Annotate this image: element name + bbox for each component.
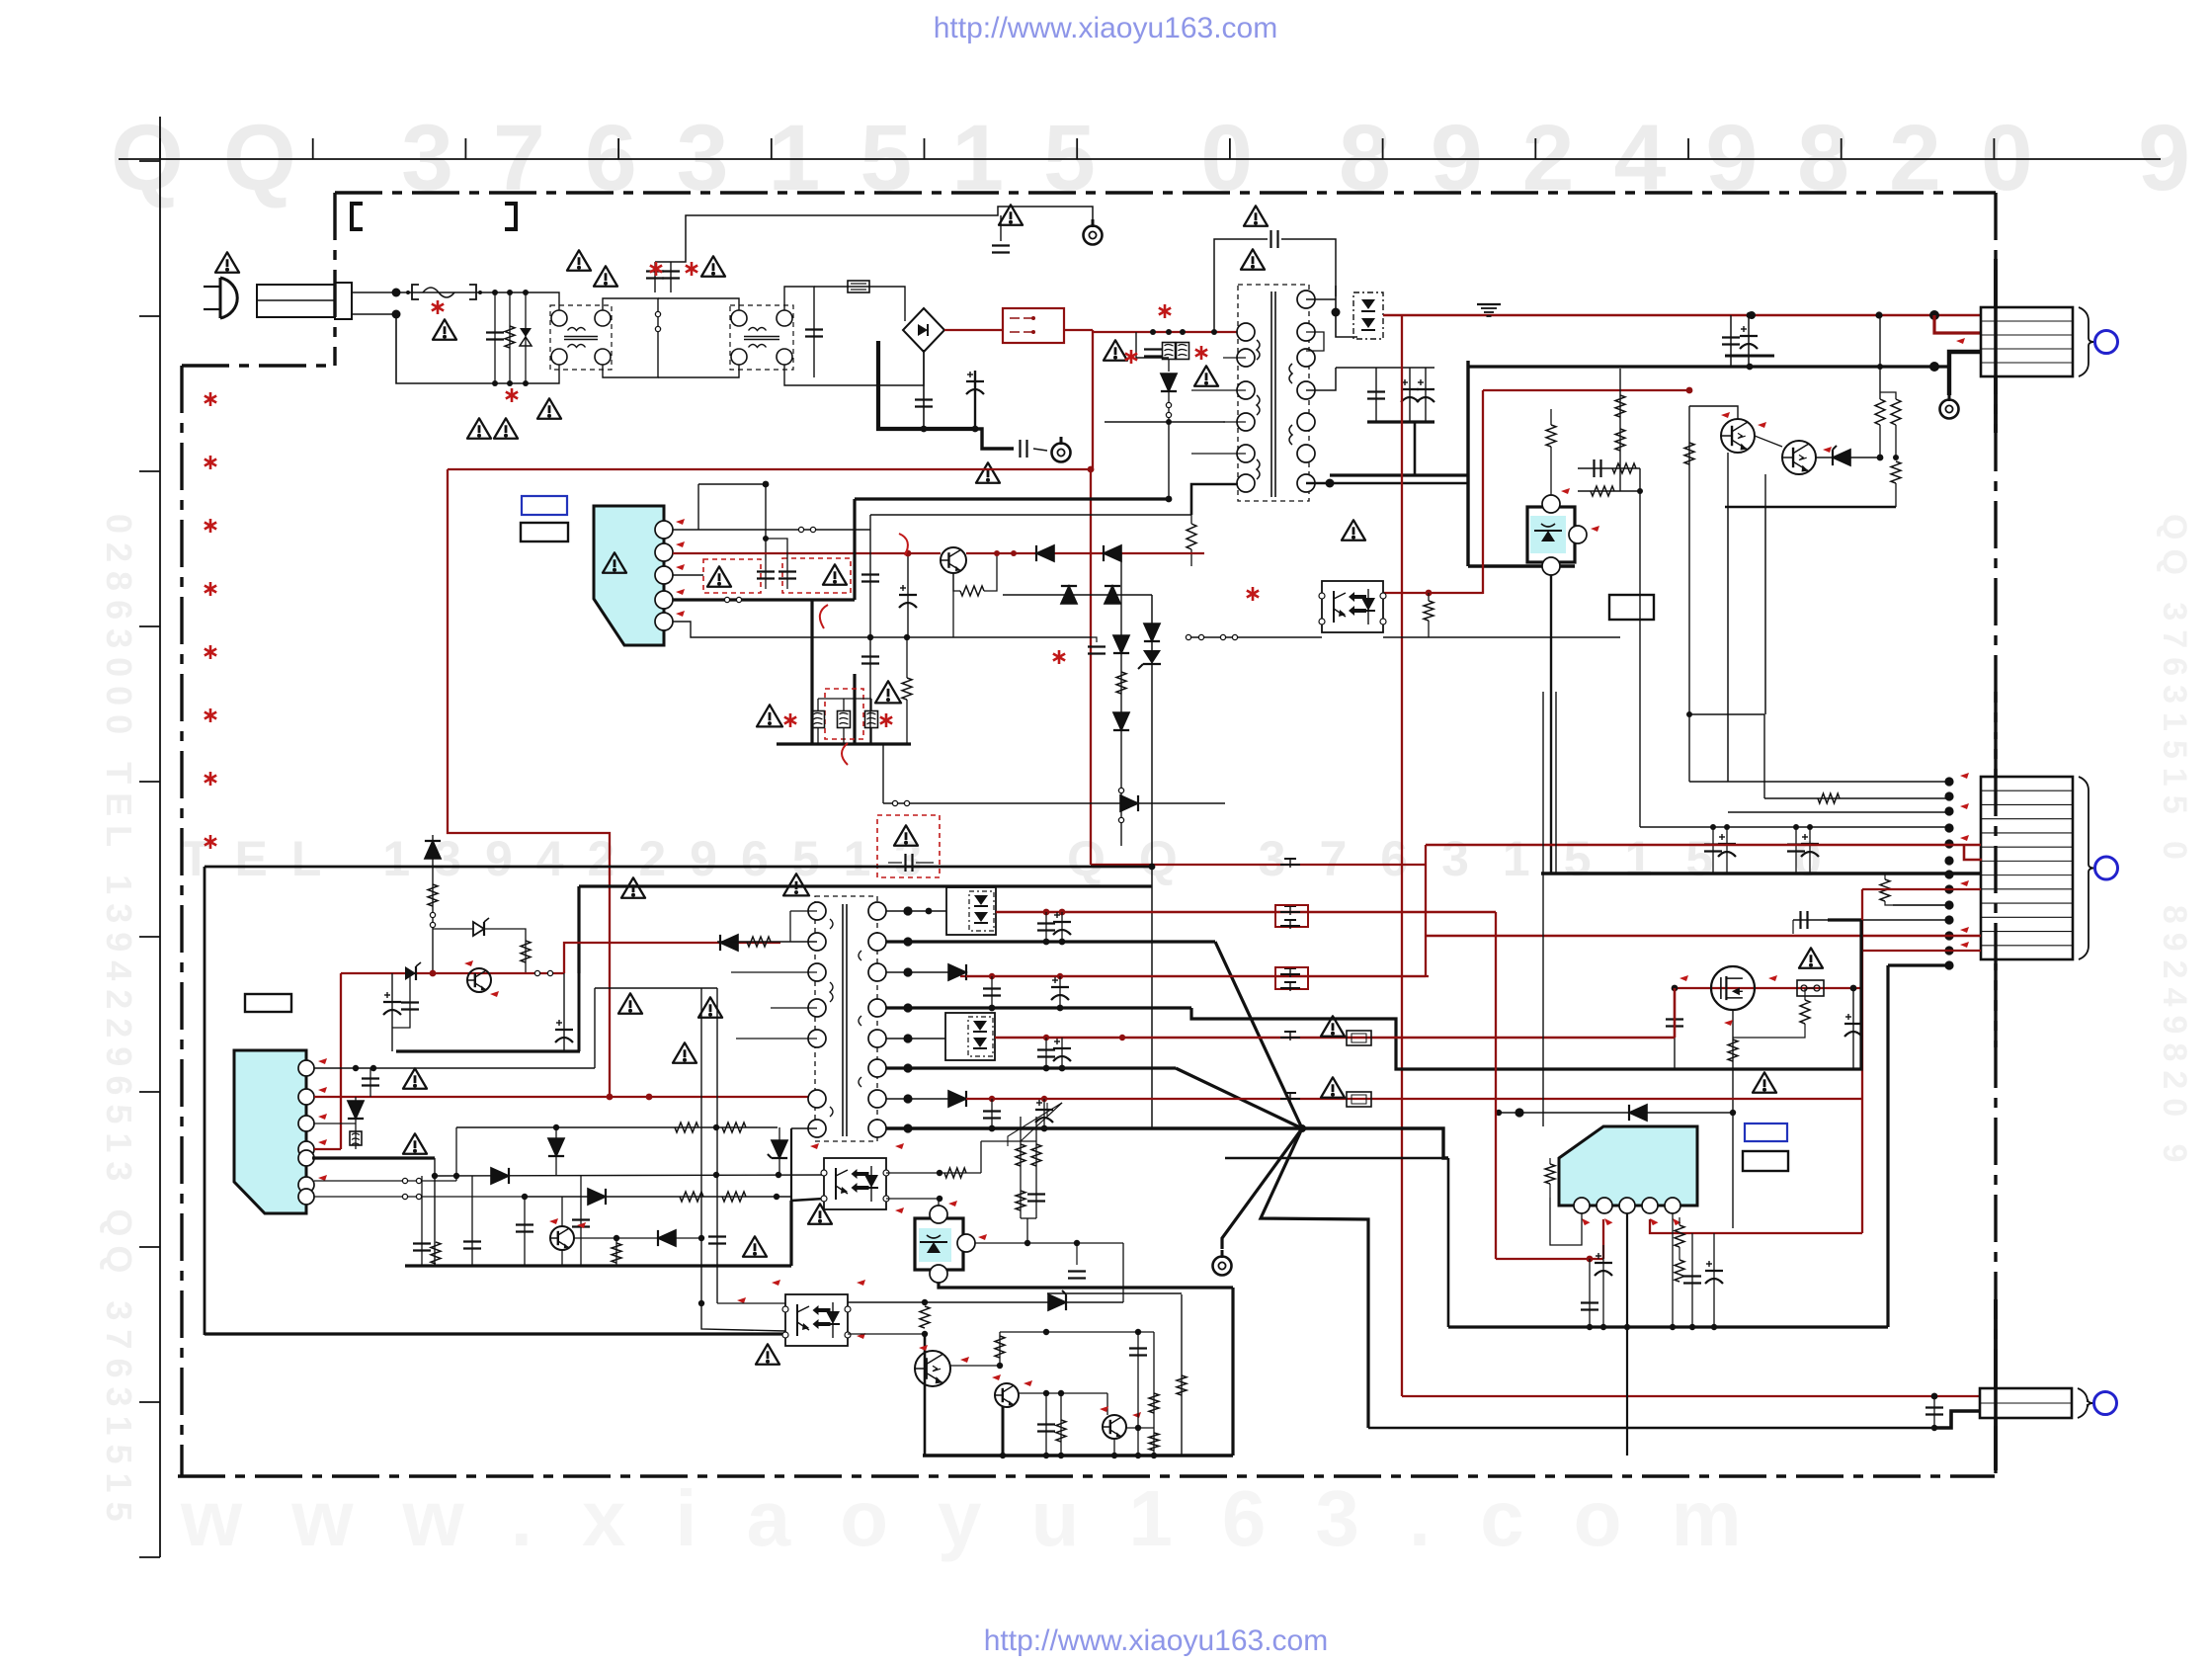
junction J71 (1043, 939, 1050, 946)
junction J81 (1119, 1035, 1125, 1040)
capacitor C11 (electrolytic) (1740, 335, 1758, 337)
warning-symbol WT14 (1194, 366, 1218, 385)
junction J33 (1793, 824, 1799, 830)
C41 legs (1043, 1099, 1045, 1128)
wire D3 down (1168, 391, 1170, 422)
wire 1059 v (1045, 1393, 1047, 1456)
U1 pin4 heavy (673, 598, 855, 601)
svg-text:http://www.xiaoyu163.com: http://www.xiaoyu163.com (984, 1624, 1329, 1657)
ruler left line (159, 117, 161, 1557)
junction J25 (1426, 590, 1433, 597)
wire RW4 (red) (448, 469, 610, 1097)
junction J103 (1043, 1390, 1049, 1396)
ref-label IC501 (245, 994, 291, 1012)
T2 winding marks (830, 919, 861, 1117)
wire 1033 v (1020, 1117, 1022, 1218)
svg-text:http://www.xiaoyu163.com: http://www.xiaoyu163.com (934, 12, 1278, 44)
wire 602 up (594, 988, 596, 1068)
adjust-mark RM19 (676, 589, 685, 595)
wire bridge bottom (923, 352, 925, 429)
wire opto PC1 low (1188, 636, 1322, 638)
wire RW40 (red) (1650, 1219, 1862, 1233)
C19 legs (765, 560, 767, 589)
junction J58 (453, 1173, 459, 1179)
wire 1281 heavy bus (405, 1264, 791, 1267)
T1 primary pin y=459 (1237, 445, 1255, 462)
junction J100 (997, 1363, 1003, 1369)
note-asterisk A8 (1252, 587, 1255, 601)
wire W18 (916, 862, 934, 864)
diode D5 (1629, 1105, 1647, 1121)
wire W12 (843, 727, 845, 744)
junction J37 (1850, 985, 1857, 992)
T2 secondary pin y=1142 (868, 1120, 886, 1137)
junction J104 (1058, 1390, 1064, 1396)
resistor R26 (612, 1243, 621, 1263)
warning-symbol WT20 (757, 705, 782, 726)
junction J7 (523, 290, 529, 295)
resistor R9 (1875, 399, 1885, 425)
wire RC 497 (1578, 490, 1620, 492)
junction J68 (1043, 909, 1050, 916)
capacitor C47 (1129, 1347, 1147, 1349)
rail2 diagonal to star (1215, 942, 1302, 1128)
connector-link L15 (892, 800, 897, 805)
junction J117 (1711, 1324, 1717, 1330)
diode D28 (948, 1091, 966, 1107)
wire 1309 row (1047, 1292, 1182, 1294)
C27 leg (391, 973, 393, 1051)
junction J94 (937, 1196, 942, 1202)
wire W6 (1884, 874, 1886, 879)
capacitor C32 (516, 1223, 533, 1225)
zener D23 (772, 1140, 787, 1158)
junction J83 (1043, 1065, 1050, 1072)
T2 p4 stub (771, 1007, 817, 1009)
fuse F1 (412, 285, 419, 299)
resistor R1 (1615, 395, 1625, 417)
junction J24 (1686, 387, 1693, 394)
note-asterisk A5 (1130, 350, 1133, 364)
wire 894 (882, 744, 884, 803)
diode D18 (720, 935, 738, 951)
note-asterisk A1 (437, 300, 440, 314)
transistor Q8 (995, 1383, 1019, 1407)
C36 legs (991, 976, 993, 1008)
ferrite bead FB5 (1280, 1098, 1300, 1100)
adjust-mark RM24 (318, 1087, 327, 1093)
adjust-mark RM7 (1960, 773, 1969, 779)
capacitor C16 (1799, 911, 1801, 929)
wire 1196 v (1181, 1294, 1183, 1456)
adjust-mark RM15 (1724, 1020, 1733, 1026)
warning-symbol WT29 (808, 1204, 832, 1223)
frame border bottom (178, 1474, 1995, 1477)
note-asterisk left column 4 (209, 582, 212, 596)
adjust-mark RM12 (1960, 942, 1969, 948)
U3 pin y=1137 (298, 1116, 314, 1131)
capacitor C18 (electrolytic) (1844, 1023, 1862, 1025)
wire 897 heavy (579, 884, 1152, 887)
wire RW12 (red) (1383, 592, 1483, 594)
resistor R10 (1891, 399, 1901, 425)
wire 1786 drop (1763, 714, 1765, 798)
warning-symbol WT5 (594, 266, 617, 286)
resistor R20 (521, 941, 531, 962)
wire row 1141 (456, 1126, 778, 1128)
frame border overlay CN1 (1994, 259, 1998, 433)
adjust-mark RM1 (1956, 338, 1965, 344)
adjust-mark RM26 (318, 1139, 327, 1145)
wire RW15 (red) (1425, 845, 1427, 976)
AC cord body (257, 285, 335, 317)
note-asterisk left column 1 (209, 392, 212, 406)
warning-symbol WT22 (894, 825, 918, 845)
wire RW1 (red) (944, 329, 1003, 331)
C5b leg (1000, 215, 1002, 241)
junction J55 (553, 1124, 559, 1130)
rail3 wire (886, 971, 949, 973)
connector-link L16 (904, 800, 909, 805)
capacitor C 837-1734 (1704, 843, 1722, 845)
wire RW9 (red) (1402, 1395, 1980, 1397)
wire 707 (697, 484, 699, 530)
wire 1155 row (981, 1140, 1036, 1142)
junction J96 (1074, 1240, 1080, 1246)
frame border overlay CN3 (1994, 1299, 1998, 1470)
wire 478 v (471, 1176, 473, 1266)
inductor FL1 (1163, 343, 1176, 360)
svg-text:02863000 TEL 13942296513 QQ 37: 02863000 TEL 13942296513 QQ 37631515 (99, 514, 139, 1531)
adjust-mark RM29 (577, 1222, 586, 1228)
junction J66 (926, 908, 933, 915)
capacitor C26 (electrolytic) (555, 1029, 573, 1031)
wire sec vertical (1336, 286, 1357, 337)
net link (766, 539, 787, 558)
U4 pin top (930, 1206, 947, 1223)
wire 1152 v (1137, 1332, 1139, 1456)
capacitor C27 (electrolytic) (383, 1001, 401, 1003)
warning-symbol WT23 (621, 877, 645, 897)
C37 legs (1059, 976, 1061, 1008)
capacitor C21 (861, 573, 879, 575)
wire W3 (1879, 425, 1881, 458)
junction J116 (1689, 1324, 1695, 1330)
Q6 emitter (561, 1250, 563, 1266)
warning-symbol WT1 (976, 462, 1000, 482)
cap bank bar (1725, 355, 1774, 358)
wire RW3 (red) (448, 330, 1093, 469)
warning-symbol WT15 (1342, 520, 1365, 540)
resistor R38 (1545, 1164, 1555, 1184)
junction J65 (903, 906, 912, 915)
note-asterisk A10 (789, 713, 792, 727)
Y-cap leg 1 (654, 262, 656, 292)
fusible resistor FR1 (1347, 1031, 1371, 1045)
U2 pin right (1569, 526, 1587, 543)
capacitor C19 (757, 570, 775, 572)
wire RW10 (red) (1483, 389, 1689, 391)
inductor FL6 (350, 1131, 362, 1145)
ladder link (1620, 490, 1640, 492)
resistor R19 (428, 884, 438, 906)
net dashed red box 2 (782, 558, 851, 593)
diode D10 (1120, 795, 1138, 811)
capacitor C50 (1683, 1275, 1701, 1277)
diode D3 (1161, 374, 1177, 391)
connector-link L22 (416, 1178, 421, 1183)
C2b legs (813, 298, 815, 377)
U5 pin x=1647 (1619, 1198, 1635, 1213)
ferrite bead FB2 (1280, 911, 1300, 913)
transistor Q7 (915, 1351, 950, 1386)
wire RW30 (red) (314, 1096, 817, 1098)
adjust-mark RM22 (490, 991, 499, 997)
ferrite bead FB1 (1280, 864, 1300, 866)
capacitor C31 (463, 1240, 481, 1242)
capacitor C13 (electrolytic) legs (1409, 368, 1411, 422)
zener to base (484, 929, 526, 973)
connector-link L14 (1118, 817, 1123, 822)
adjust-mark RM10 (1960, 880, 1969, 886)
cap bank2 drop (1414, 422, 1417, 475)
adjust-mark RM23 (318, 1058, 327, 1064)
warning-symbol WT27 (403, 1068, 427, 1088)
adjust-mark RM35 (772, 1280, 780, 1286)
Q8 emitter heavy (1002, 1407, 1005, 1456)
line filter L2 (730, 305, 793, 370)
rectifier D27 pack (945, 1013, 995, 1060)
CN2 row dot y=791 (1944, 777, 1953, 786)
adjust-mark RM31 (895, 1143, 904, 1149)
CN3 black entry (1934, 1411, 1980, 1428)
rail5 wire (886, 1038, 945, 1040)
T2 p2 wire (717, 941, 817, 943)
wire 1562 long (1542, 692, 1544, 1126)
wire RW36 (red) (966, 975, 1429, 977)
note-asterisk left column 8 (209, 835, 212, 849)
wire row 813 (883, 802, 1225, 804)
capacitor C42 (1925, 1406, 1943, 1408)
resistor R34 (1056, 1420, 1066, 1442)
wire 1168 v (1153, 1332, 1155, 1456)
wire to bridge top (814, 287, 905, 321)
junction J40 (1730, 1110, 1736, 1116)
junction J106 (1000, 1453, 1006, 1458)
wire heavy 1911 vertical (1886, 965, 1889, 1327)
wire RW32 (red) (996, 911, 1496, 914)
CN2 row 791 (1689, 781, 1949, 783)
C18 leg (1852, 988, 1854, 1069)
rail6 heavy (886, 1066, 1176, 1069)
wire 801 v (790, 1128, 792, 1201)
warning-symbol WT21 (875, 681, 901, 703)
wire mosfet gate drop (1732, 1010, 1734, 1228)
capacitor C12 (1367, 390, 1385, 392)
wire 753 heavy (777, 742, 911, 745)
connector CN1 (1981, 307, 2073, 376)
capacitor C3 (915, 398, 933, 400)
ruler top line (119, 158, 2161, 160)
red arc mark 3 (842, 743, 848, 765)
wire CN1 black entry (1949, 352, 1981, 367)
adjust-mark RM33 (948, 1201, 957, 1206)
note-asterisk left column 5 (209, 645, 212, 659)
resistor R5 (1612, 463, 1636, 473)
frame border right solid lower (1994, 1299, 1998, 1470)
cap bank2 bar (1367, 420, 1434, 423)
CN2 row dot y=854 (1944, 839, 1953, 848)
wire RW35 (red) (1602, 1219, 1604, 1259)
adjust-mark RM34 (978, 1234, 987, 1240)
wire gnd rail right heavy (1541, 872, 1981, 874)
junction J98 (922, 1299, 928, 1305)
wire 505 heavy (855, 497, 1169, 500)
wire 881 low (869, 600, 871, 744)
ecap leg 837 (1726, 827, 1728, 874)
junction J75 (1057, 973, 1063, 979)
adjust-mark RM47 (1648, 1216, 1659, 1227)
warning-symbol WT10 (999, 205, 1023, 224)
transformer T2 core (842, 904, 844, 1136)
wire 789 v (778, 1127, 780, 1175)
star to lug diagonal (1222, 1128, 1302, 1249)
U1 pin y=536 (655, 521, 673, 539)
junction J17 (1748, 311, 1756, 319)
wire W19 (1549, 1158, 1551, 1164)
resistor R37 (1177, 1375, 1187, 1395)
wire W23 (1589, 1294, 1591, 1327)
T1 pin5 stub (1191, 453, 1246, 455)
wire W20 (1549, 1184, 1551, 1198)
U1 pin5 wire row 645 (673, 622, 1091, 637)
adjust-mark RM27 (318, 1175, 327, 1181)
CN2 row dot y=838 (1944, 823, 1953, 832)
wire L1 to C2 top (603, 298, 658, 318)
stub C24 (1091, 637, 1097, 642)
transistor Q2 (1782, 441, 1816, 474)
junction J19 (1929, 310, 1939, 320)
Q9 emitter (1113, 1439, 1115, 1456)
adjust-mark RM21 (464, 960, 473, 966)
C28 leg (392, 973, 410, 1028)
resistor R2 (1615, 429, 1625, 451)
resistor R17 (1116, 672, 1126, 694)
wire 881 mid (869, 530, 871, 600)
wire RW20 (red) (1862, 888, 1981, 890)
warning-symbol WT6 (701, 256, 725, 276)
wire RW39 (red) (966, 1098, 1862, 1100)
junction J43 (867, 634, 873, 640)
diode D7 (1104, 545, 1121, 561)
IC U3 body (234, 1050, 306, 1213)
ruler tick left 10 (139, 1556, 160, 1558)
ruler tick top 2 (312, 138, 314, 159)
Q2 emitter drop (1764, 474, 1766, 507)
PC4 in top (717, 1302, 785, 1304)
resistor R39 (1675, 1225, 1684, 1247)
U4 pin bottom (930, 1265, 947, 1283)
capacitor C14 (electrolytic) legs (1425, 368, 1427, 422)
adjust-mark RM4 (1721, 412, 1730, 418)
warning-symbol WT13 (1104, 340, 1127, 360)
star junction (1298, 1124, 1306, 1132)
CN2 row dot y=931 (1944, 915, 1953, 924)
wire to Q9 (1106, 1393, 1108, 1415)
cols join (1021, 1217, 1036, 1219)
capacitor C36 (983, 987, 1001, 989)
capacitor C 837-1818 (1787, 843, 1805, 845)
wire W17 (888, 862, 902, 864)
junction J73 (903, 967, 912, 976)
IC U5 body (1559, 1126, 1697, 1206)
wire C2 to L2 bottom (658, 365, 739, 377)
C40 legs (991, 1099, 993, 1128)
bridge rectifier D1 (903, 308, 944, 352)
AC line wire top (352, 291, 553, 293)
wire to lug E2 (1033, 449, 1047, 451)
wire RW22 (red) (1861, 889, 1863, 1233)
U5 pin3 gnd (1626, 1213, 1628, 1456)
U1 pin y=582 (655, 566, 673, 584)
warning-symbol WT9 (537, 398, 561, 418)
Q9 out (1126, 1427, 1154, 1429)
warning-symbol WT31 (783, 874, 809, 895)
Q7 out (950, 1365, 1000, 1367)
U5 pin x=1624 (1597, 1198, 1612, 1213)
capacitor C51 (electrolytic) (1705, 1270, 1723, 1272)
junction J12 (1166, 329, 1172, 335)
resistor R36 (1149, 1433, 1159, 1451)
transistor Q9 (1103, 1415, 1126, 1439)
ruler tick top 9 (1382, 138, 1384, 159)
ruler tick top 11 (1687, 138, 1689, 159)
capacitor C17 (1666, 1018, 1683, 1020)
warning-symbol WT24 (618, 993, 642, 1013)
frame bracket left (352, 204, 363, 229)
C38 legs (1045, 1038, 1047, 1068)
warning-symbol WT16 (1799, 948, 1823, 967)
note-asterisk left column 3 (209, 519, 212, 533)
adjust-mark RM25 (318, 1114, 327, 1120)
AC plug J1 (220, 278, 237, 318)
junction J45 (763, 536, 769, 541)
resistor R4 (1424, 601, 1434, 621)
wire 440 v (434, 1158, 436, 1266)
resistor R22 (722, 1123, 746, 1132)
junction J62 (774, 1194, 779, 1200)
filter leg wire (494, 292, 496, 383)
junction J1 (392, 289, 401, 297)
ruler tick left 9 (139, 1401, 160, 1403)
resistor R13 (1880, 879, 1890, 901)
junction J90 (1041, 1125, 1048, 1132)
C29 legs (369, 1068, 371, 1097)
wire 1445 row (1368, 1427, 1934, 1429)
junction J20 (1929, 362, 1939, 372)
transformer T2 outline (815, 896, 877, 1141)
junction J86 (989, 1096, 995, 1102)
wire 586b heavy (578, 973, 581, 1051)
ruler tick top 13 (1993, 138, 1995, 159)
shunt-reg U4 cyan (919, 1228, 951, 1262)
T2 secondary pin y=1081 (868, 1059, 886, 1077)
wire 360 v (355, 1097, 357, 1149)
frame border overlay CN2 (1994, 692, 1997, 1047)
junction J105 (1135, 1425, 1141, 1431)
ruler tick top 10 (1534, 138, 1536, 159)
capacitor C46 (1037, 1423, 1055, 1425)
